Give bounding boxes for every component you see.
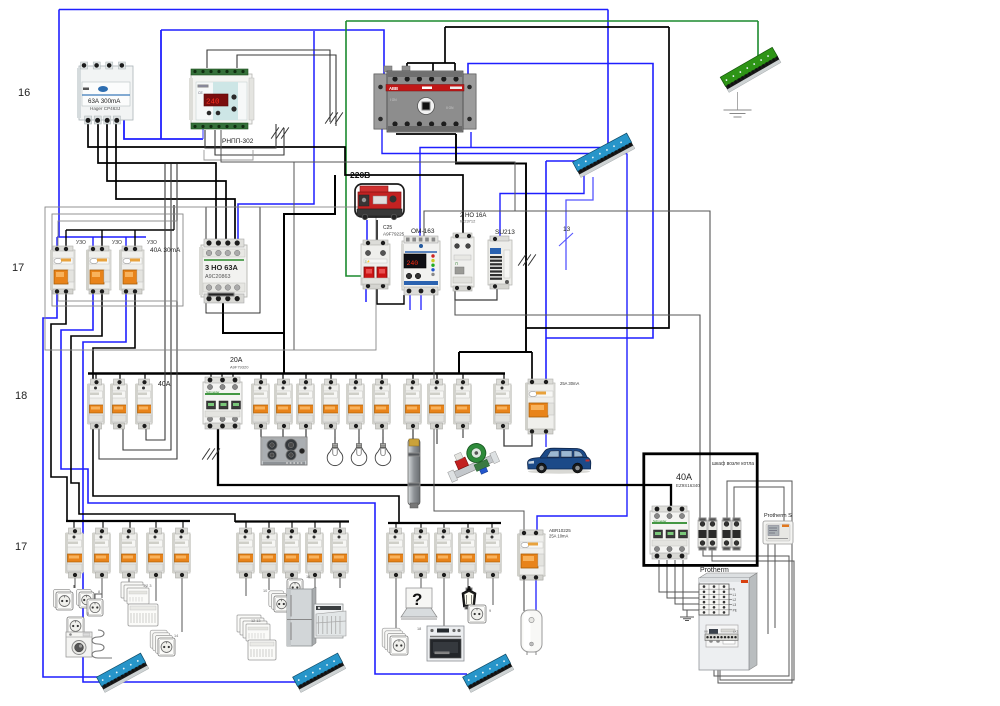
svg-text:LX3: LX3 xyxy=(733,630,739,634)
svg-text:240: 240 xyxy=(407,260,419,267)
svg-text:18: 18 xyxy=(417,627,421,631)
svg-text:SU213: SU213 xyxy=(495,229,515,236)
svg-text:ABB: ABB xyxy=(389,86,398,91)
svg-text:63А 300mA: 63А 300mA xyxy=(88,98,121,105)
svg-text:Schneider: Schneider xyxy=(206,390,220,394)
svg-text:А9С20863: А9С20863 xyxy=(205,274,230,280)
svg-text:УЗО: УЗО xyxy=(76,240,86,246)
svg-text:17: 17 xyxy=(12,262,24,274)
svg-text:16: 16 xyxy=(306,575,310,579)
svg-text:25A 10mA: 25A 10mA xyxy=(549,534,569,539)
svg-text:40А 30mA: 40А 30mA xyxy=(150,247,181,254)
svg-text:L2: L2 xyxy=(733,598,737,602)
svg-text:25A 30mA: 25A 30mA xyxy=(560,381,580,386)
svg-text:CE: CE xyxy=(198,91,204,95)
svg-text:Protherm S: Protherm S xyxy=(764,513,792,519)
svg-text:240: 240 xyxy=(206,99,220,107)
svg-text:40А: 40А xyxy=(158,381,171,388)
svg-text:20А: 20А xyxy=(230,357,243,364)
svg-text:220В: 220В xyxy=(350,170,370,180)
svg-text:УЗО: УЗО xyxy=(147,240,157,246)
svg-text:PE: PE xyxy=(733,608,737,612)
svg-text:EZ9S16340: EZ9S16340 xyxy=(676,483,700,488)
svg-text:3 НО 63А: 3 НО 63А xyxy=(205,263,239,272)
svg-text:УЗО: УЗО xyxy=(112,240,122,246)
svg-text:РНПП-302: РНПП-302 xyxy=(222,138,254,145)
svg-text:I ON: I ON xyxy=(390,98,397,102)
svg-text:13: 13 xyxy=(563,226,571,233)
svg-text:L3: L3 xyxy=(733,603,737,607)
svg-text:?: ? xyxy=(412,590,422,609)
svg-text:Protherm: Protherm xyxy=(700,567,729,574)
svg-text:1 2 3: 1 2 3 xyxy=(143,584,151,588)
svg-text:шкаф возле котла: шкаф возле котла xyxy=(712,461,754,467)
svg-text:Schneider: Schneider xyxy=(653,519,667,523)
svg-text:12 13: 12 13 xyxy=(251,619,261,623)
svg-text:L1: L1 xyxy=(733,593,737,597)
svg-text:10: 10 xyxy=(263,589,267,593)
svg-text:9: 9 xyxy=(489,609,491,613)
svg-text:A9F79225: A9F79225 xyxy=(383,232,405,237)
svg-text:17: 17 xyxy=(15,541,27,553)
svg-text:C25: C25 xyxy=(383,225,392,231)
svg-text:16: 16 xyxy=(18,87,30,99)
svg-text:X8: X8 xyxy=(704,630,708,634)
svg-text:5: 5 xyxy=(87,612,89,616)
svg-text:8: 8 xyxy=(98,590,100,594)
svg-text:≡⚡: ≡⚡ xyxy=(365,260,371,264)
svg-text:II ON: II ON xyxy=(446,106,454,110)
svg-text:A9F79320: A9F79320 xyxy=(230,365,249,370)
svg-text:Hager CP463J: Hager CP463J xyxy=(90,106,120,111)
svg-text:ABR10225: ABR10225 xyxy=(549,528,571,533)
svg-text:40А: 40А xyxy=(676,472,692,482)
svg-text:14: 14 xyxy=(174,634,178,638)
svg-text:ОМ-163: ОМ-163 xyxy=(411,228,435,235)
svg-text:hk23712: hk23712 xyxy=(460,219,476,224)
svg-text:18: 18 xyxy=(15,390,27,402)
svg-text:⊓: ⊓ xyxy=(455,261,458,266)
